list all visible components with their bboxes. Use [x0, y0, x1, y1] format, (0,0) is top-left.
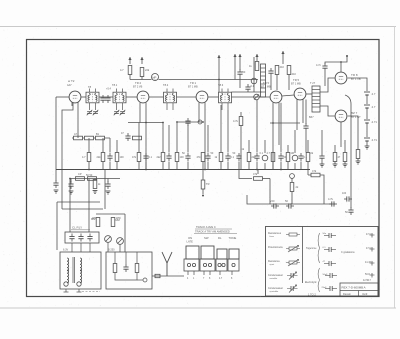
antenna [162, 252, 172, 276]
output transformer T5 [310, 81, 320, 112]
tube V2 legs [140, 103, 146, 170]
capacitor C35 [245, 84, 254, 92]
wire mid verticals [89, 100, 345, 153]
drawing frame border [27, 40, 380, 297]
battery cell B2 [364, 105, 376, 109]
capacitor C27 [78, 234, 83, 242]
legend table frame [266, 227, 379, 297]
resistor R34 [113, 264, 117, 273]
tube V6 [335, 72, 361, 84]
resistor R8 [85, 136, 94, 140]
wire left long vertical [55, 97, 57, 170]
capacitor C28 [87, 234, 92, 242]
wire TP5 down [282, 58, 284, 64]
legend right sym 3 [365, 261, 375, 266]
capacitor C25 [328, 197, 337, 207]
tube V1 [67, 79, 81, 103]
label CL RLY [71, 226, 90, 230]
switch cap 2 [201, 246, 214, 259]
capacitor C14 [205, 153, 210, 161]
resistor R36 [93, 179, 102, 194]
resistor R4 [275, 65, 284, 75]
resistor R24 [343, 153, 348, 168]
resistor R28 [201, 170, 209, 197]
trimmer C5 [114, 110, 120, 115]
resistor R30 [290, 183, 299, 205]
switch terminals [188, 271, 232, 275]
test point arrow TP5 [281, 51, 284, 58]
power section: resistor R29 [239, 170, 270, 181]
battery cell B3 [364, 120, 377, 124]
resistor R26 [76, 172, 85, 180]
wire 204 bus left end [247, 195, 270, 204]
IF transformer T2 [106, 83, 126, 110]
resistor R20 [271, 153, 275, 162]
switch body 4 [228, 259, 239, 271]
legend table divider [302, 227, 304, 284]
capacitor C13 [185, 153, 190, 161]
wire output transformer to V7 [320, 106, 335, 116]
capacitor C16 [236, 153, 241, 161]
scanned page bottom edge [0, 307, 396, 309]
resistor R16 [175, 153, 179, 162]
ground G1 [68, 179, 73, 195]
capacitor C9 [125, 133, 130, 141]
scanned page right edge [394, 27, 396, 309]
variable capacitor C20 [292, 155, 298, 161]
resistor R18 [219, 153, 223, 162]
lamp P3 [137, 278, 147, 282]
capacitor C33 [345, 204, 354, 215]
resistor R22 [306, 153, 310, 162]
resistor row R7 [74, 136, 83, 140]
resistor R27 [88, 177, 97, 181]
capacitor C1 [268, 68, 273, 76]
pilot lamp P2 [77, 282, 81, 286]
legend right sym 1 [366, 233, 375, 238]
switch cap 3 [217, 249, 227, 259]
wire left second vertical [62, 103, 73, 210]
padder capacitor C8 [198, 120, 202, 124]
wire grid row 1 [128, 122, 300, 123]
resistor R12 [101, 153, 105, 162]
IF transformer T3 [163, 83, 177, 110]
capacitor Cx1 [100, 95, 110, 103]
transformer secondary winding [80, 258, 82, 283]
test point arrow TP1 [128, 57, 131, 64]
coupling capacitor C30 [155, 274, 160, 277]
resistor R23 [333, 153, 338, 168]
wire R6 stub [240, 112, 242, 170]
resistor R9 [96, 136, 105, 140]
transistor Q1 [105, 236, 112, 252]
wire second bus [70, 178, 120, 180]
wire B1-B2 [366, 95, 368, 104]
capacitor C21 [298, 153, 303, 161]
wire C2 down [324, 71, 326, 86]
node dot top right [346, 55, 348, 57]
wire TP3 down [234, 61, 236, 80]
resistor R5 [287, 66, 296, 77]
tube V1 lower legs [72, 103, 78, 139]
legend middle sym 2 [323, 247, 337, 252]
tube V4 legs [273, 103, 279, 170]
resistor R6 [233, 117, 243, 126]
resistor R15 [161, 153, 165, 162]
wire output transformer to V6 [320, 78, 335, 92]
legend middle sym 1 [323, 233, 337, 238]
terminal stub A3 [89, 243, 91, 252]
trimmer C6 [120, 110, 126, 115]
pilot lamp P1 [64, 282, 68, 286]
variable capacitor C36 [254, 94, 260, 100]
variable resistor VR1 [290, 174, 295, 182]
dashed link under box B [82, 291, 100, 293]
test point arrow TP2 [140, 57, 143, 64]
rectifier box C [106, 252, 152, 289]
resistor R2 [140, 68, 150, 77]
electrolytic capacitor C24 [285, 199, 294, 209]
wire box C internals [115, 252, 137, 280]
wire main lower bus [56, 169, 310, 171]
wire lower-left link [57, 201, 100, 203]
resistor R35 [135, 264, 139, 273]
terminal stub A2 [80, 243, 82, 252]
resistor R3 [249, 62, 259, 71]
wire V7 output [348, 116, 358, 150]
switch cap 1 [186, 246, 199, 259]
switch cap 4 [229, 249, 239, 259]
tube V3 [188, 81, 208, 103]
switch body 1 [184, 259, 199, 271]
terminal marks below transformer [64, 289, 82, 292]
wire B3-B4 [366, 123, 368, 137]
resistor R19 [247, 153, 251, 162]
capacitor C31 [53, 170, 58, 194]
wire TP6 down [239, 61, 241, 70]
resistor R1 [120, 66, 132, 75]
wire mid verticals lower [89, 162, 308, 170]
legend row 1 [268, 232, 300, 238]
wire B2-B3 [366, 108, 368, 119]
legend row 3 [268, 260, 300, 267]
wire mid link row [232, 77, 262, 92]
resistor R21 [286, 153, 290, 162]
tube V2 [133, 81, 149, 103]
capacitor C22 [319, 153, 324, 167]
scanned page top edge [0, 26, 396, 28]
switch label ON [187, 236, 194, 244]
test point arrow TP3 [233, 54, 236, 61]
battery cell B1 [364, 92, 376, 96]
tube V7 [335, 110, 361, 122]
legend middle bracket 2b [318, 268, 319, 292]
wire grid feed vertical [253, 57, 255, 92]
legend right sym 5 [363, 279, 372, 282]
tube V5 legs [297, 100, 303, 131]
transistor Q2 [117, 238, 124, 252]
legend row 5 [268, 285, 298, 293]
test point arrow TP6 [238, 54, 241, 61]
switch body 3 [216, 259, 227, 271]
electrolytic capacitor C23 [270, 199, 279, 209]
capacitor C34 [237, 69, 245, 77]
resistor R32 [91, 217, 100, 227]
capacitor C29 [123, 264, 128, 272]
terminal stub A1 [71, 243, 73, 252]
switch terminal labels [187, 278, 233, 280]
legend middle sym 4 [323, 273, 338, 278]
wire antenna feed [152, 275, 184, 277]
wire R4 R5 drops [271, 75, 289, 91]
power transformer box [60, 252, 101, 289]
tube V3 legs [199, 103, 205, 170]
capacitor C15 [225, 153, 230, 161]
capacitor C17 [254, 153, 259, 161]
legend middle bracket 2 [305, 281, 317, 284]
battery cell B4 [364, 138, 377, 142]
trimmer C4 [93, 110, 99, 115]
wire R1 to bus [129, 75, 131, 80]
misc node dots [69, 61, 342, 179]
tube V5 [291, 78, 306, 100]
wire left into box B [56, 202, 58, 250]
trimmer C3 [87, 110, 93, 115]
capacitor C37 [303, 100, 308, 153]
legend right sym 4 [365, 273, 375, 278]
resistor R14 [137, 153, 141, 162]
legend right sym 2 [366, 247, 375, 252]
switch body 2 [200, 259, 215, 271]
title block [340, 283, 378, 296]
capacitor C12 [166, 153, 171, 161]
ground G2 [105, 179, 110, 195]
wire power drop [258, 170, 335, 205]
IF transformer T1 [86, 85, 99, 110]
wire resistor row [72, 137, 110, 139]
legend row 2 [268, 246, 300, 253]
resistor R17 [201, 153, 205, 162]
tube V7 lower leg [340, 122, 342, 147]
legend middle sym 3 [323, 261, 337, 266]
IF transformer T4 [218, 83, 232, 110]
capacitor C2 [316, 63, 328, 71]
grid cap connector [251, 78, 257, 84]
ground battery stack [365, 141, 370, 149]
legend row 4 [268, 272, 298, 280]
transformer primary winding [67, 258, 69, 283]
lamp MP [152, 74, 159, 81]
wire lamp stub [154, 80, 156, 81]
capacitor C10 [107, 153, 112, 161]
wire main signal row [56, 94, 312, 97]
resistor R33 [111, 218, 120, 227]
switch header note [194, 225, 237, 234]
resistor R13 [115, 153, 119, 162]
wire V6 top feed [325, 56, 347, 72]
wire R2 to bus [141, 77, 143, 80]
padder capacitor C7 [185, 118, 190, 126]
oscillator section: wire top [62, 170, 125, 253]
capacitor C19 [278, 153, 283, 161]
wire top horizontal bus [130, 79, 258, 81]
wire V6 to supply rail [348, 78, 367, 91]
capacitor C26 [69, 234, 74, 242]
legend middle sym 5 [322, 286, 338, 291]
legend middle bracket 1 [306, 233, 320, 263]
test point arrow TP7 [217, 55, 220, 92]
variable capacitor C18 [262, 155, 268, 161]
resistor R25 [356, 150, 361, 165]
wire B+ long vertical [345, 95, 351, 204]
capacitor C11 [143, 153, 148, 161]
resistor R11 [87, 153, 91, 162]
tube V4 [261, 81, 282, 103]
resistor R31 [308, 169, 324, 204]
test point arrow TP4 [255, 54, 258, 61]
resistor R10 [133, 136, 142, 140]
transformer core [73, 257, 75, 283]
junction box A [65, 232, 99, 243]
filter choke L1 [261, 64, 266, 97]
capacitor C32 [342, 192, 352, 202]
